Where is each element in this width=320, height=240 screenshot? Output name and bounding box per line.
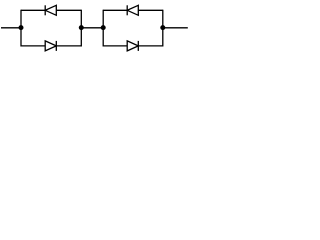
wire: pair2 top rail left segment — [103, 9, 127, 11]
diode D1 triangle — [45, 5, 56, 15]
diode D3 (top-right, pointing left): cathode bar — [126, 5, 128, 15]
wire: pair1 top rail right segment — [56, 9, 81, 11]
node A: junction dot left — [19, 25, 24, 30]
wire: pair1 right vertical bus — [80, 10, 82, 47]
wire: pair2 left vertical bus — [102, 10, 104, 47]
wire: pair2 bottom rail left segment — [103, 45, 127, 47]
wire: pair1 bottom rail right segment — [56, 45, 81, 47]
wire: pair2 bottom rail right segment — [138, 45, 163, 47]
wire: pair1 bottom rail left segment — [21, 45, 45, 47]
diode D4 (bottom-right, pointing right): triangle — [127, 41, 138, 51]
wire: right terminal lead — [163, 27, 188, 29]
diode D3 triangle — [127, 5, 138, 15]
wire: pair2 top rail right segment — [138, 9, 163, 11]
diode D2 (bottom-left, pointing right): triangle — [45, 41, 56, 51]
wire: pair1 top rail left segment — [21, 9, 45, 11]
wire: left terminal lead — [1, 27, 21, 29]
wire: middle connecting lead — [81, 27, 103, 29]
node C: junction dot pair2 left — [101, 25, 106, 30]
node D: junction dot pair2 right — [160, 25, 165, 30]
wire: pair1 left vertical bus — [20, 10, 22, 47]
node B: junction dot pair1 right — [79, 25, 84, 30]
diode D1 (top-left, pointing left): cathode bar — [44, 5, 46, 15]
diode D4 cathode bar — [137, 41, 139, 51]
diode D2 cathode bar — [55, 41, 57, 51]
wire: pair2 right vertical bus — [162, 10, 164, 47]
